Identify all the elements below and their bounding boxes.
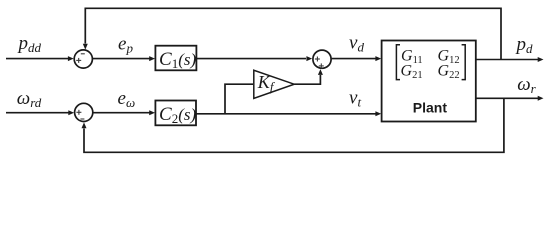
arrowhead down into S1 [83,44,88,50]
wire p_dd input [6,58,69,60]
wire Kf output to S3 [294,75,320,84]
svg-text:C2(s): C2(s) [159,104,196,126]
arrowhead ω_r [538,96,544,101]
gain block Kf (triangle) [254,70,294,98]
svg-text:C1(s): C1(s) [159,49,196,71]
S1 minus sign [81,53,85,55]
arrowhead into Plant (v_t) [375,111,381,116]
arrowhead into summing junction S1 [68,56,74,61]
arrowhead p_d [538,57,544,62]
block Plant [382,41,476,122]
svg-text:Plant: Plant [413,99,448,115]
wire C1 to S3 [196,58,306,60]
arrowhead into C2 [149,110,155,115]
wire e_p (S1 to C1) [92,58,149,60]
matrix left bracket [396,45,400,80]
summing junction S3 [313,50,331,68]
S2 plus sign [76,110,81,115]
arrowhead up into S3 [318,69,323,75]
wire tap from v_t up to Kf [225,84,253,114]
block C2(s) [155,101,196,126]
S3 left plus sign [315,57,320,62]
bottom feedback wire (from ω_r tap to S2) [84,98,504,152]
wire p_d output [476,59,539,61]
arrowhead into S2 [68,110,74,115]
wire e_ω (S2 to C2) [93,112,150,114]
matrix right bracket [462,45,466,80]
arrowhead into S3 [306,56,312,61]
arrowhead into C1 [149,56,155,61]
wire v_d (S3 to Plant) [332,58,376,60]
arrowhead into Plant (v_d) [375,56,381,61]
wire ω_r output [476,97,539,99]
block C1(s) [155,46,196,71]
S1 plus sign [76,58,81,63]
wire v_t (C2 to Plant) [196,113,376,115]
S3 bottom plus sign [319,63,324,68]
wire ω_rd input [6,112,69,114]
top feedback wire (from p_d tap to S1) [85,8,501,59]
summing junction S1 [74,50,92,68]
summing junction S2 [75,103,93,121]
arrowhead up into S2 [82,122,87,128]
S2 minus sign [80,118,84,120]
